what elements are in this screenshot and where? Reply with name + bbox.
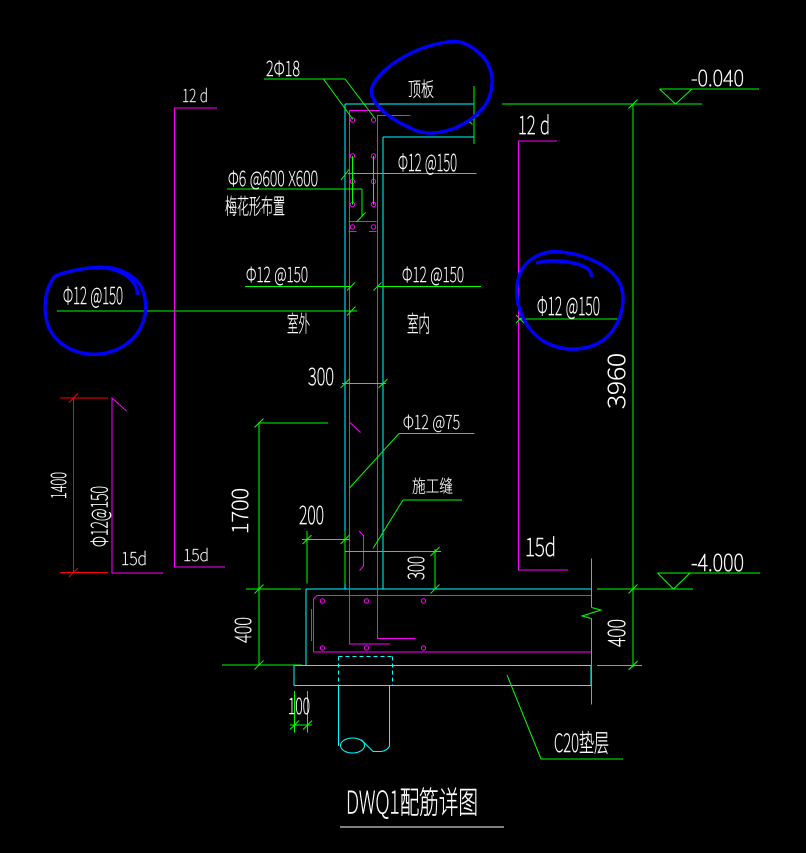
- phi12@150 mid-right underline: [377, 286, 481, 288]
- dim 300 right extension: [434, 549, 436, 589]
- footing rebar cage bottom (magenta): [314, 651, 592, 653]
- footing rebar cage top (magenta): [317, 595, 591, 597]
- dim 100 line: [290, 724, 312, 726]
- blue markup circle left: [45, 267, 146, 354]
- label 15d left-bar text: [123, 551, 146, 565]
- footing break zigzag: [582, 608, 601, 619]
- dim 1700 bottom ext: [246, 588, 301, 590]
- dimension 1700 text: [232, 489, 248, 532]
- label phi12@75 text: [404, 415, 459, 432]
- pile bottom break symbol (cyan): [341, 738, 390, 753]
- dim 1700 top ext: [258, 422, 328, 424]
- red dim 1400 top ext: [60, 397, 108, 399]
- label phi12@150 mid-right text: [403, 267, 464, 286]
- label 12d right text: [520, 114, 549, 134]
- level -0.040 line: [502, 103, 702, 105]
- right detail bar 12d/15d (magenta): [519, 141, 569, 570]
- phi12@150 mid-left tick: [347, 283, 355, 291]
- dim 100 ticks: [290, 721, 312, 730]
- phi12@150 far-left underline: [57, 310, 357, 312]
- pile left edge (cyan): [338, 686, 340, 747]
- footing bar section circles (magenta): [320, 599, 425, 650]
- wall/slab top edge (cyan): [345, 103, 474, 105]
- dimension 400 right text: [608, 620, 626, 647]
- label phi12@150 far-left text: [64, 287, 123, 308]
- phi12@75 leader: [350, 434, 400, 489]
- red dim 1400 bottom ext: [60, 572, 108, 574]
- level -0.040 overline: [660, 88, 760, 90]
- label shiwai (outdoor) text: [288, 313, 310, 334]
- 2phi18 leader diagonal 2: [345, 79, 375, 119]
- 2phi18 leader diagonal 1: [324, 79, 354, 120]
- dimension 200 text: [300, 506, 323, 525]
- phi12@150 far-left tick: [347, 307, 356, 316]
- dim 400 right bottom ext: [597, 665, 642, 667]
- label phi12@150 rotated left text: [91, 487, 112, 546]
- phi12@150 mid-right tick: [374, 283, 382, 291]
- label phi6@600x600 text: [229, 171, 317, 190]
- bedding left edge (cyan): [293, 666, 295, 686]
- tie bar section circles (magenta): [350, 118, 375, 229]
- dim 400 left line: [258, 589, 260, 665]
- wall 300 dimension ticks: [341, 379, 388, 388]
- wall tie links (green): [353, 156, 374, 205]
- label meihuaxing buzhi text: [226, 196, 285, 216]
- dim 200 ext lines: [307, 531, 345, 584]
- bedding bottom edge (cyan): [294, 685, 591, 687]
- level -4.000 line: [597, 588, 693, 590]
- dim 1700 line: [258, 423, 260, 589]
- dim 400 left bottom ext: [222, 664, 302, 666]
- label 2phi18 text: [267, 61, 300, 77]
- blue markup circle top: [371, 41, 492, 132]
- wall inner face (cyan): [382, 137, 384, 589]
- left detail bar 12d/15d (magenta): [175, 108, 226, 567]
- label dingban (top slab) text: [409, 80, 434, 98]
- dim 400 right line: [632, 589, 634, 667]
- pile right edge (cyan): [389, 686, 391, 748]
- phi12@150 mid-left underline: [245, 286, 351, 288]
- footing top edge (cyan): [306, 588, 591, 590]
- dimension 100 text: [289, 698, 309, 714]
- title underline (white): [340, 826, 504, 828]
- dim 200 line: [302, 539, 350, 541]
- label 15d right-bar text: [527, 536, 554, 556]
- 2phi18 leader underline: [264, 78, 345, 80]
- dim 200 ticks: [303, 535, 350, 544]
- level text -4.000: [692, 554, 743, 572]
- level text -0.040: [692, 70, 743, 86]
- bedding top edge (cyan): [294, 665, 591, 667]
- lap splice mark (magenta): [350, 423, 361, 433]
- dimension 300 right text: [408, 557, 424, 580]
- label 15d mid-bar text: [185, 548, 208, 561]
- dimension 3960 text: [608, 354, 626, 408]
- phi6 leader arrow: [357, 213, 366, 223]
- bedding right cut edge (cyan): [590, 666, 592, 686]
- label C20 dianceng (bedding) text: [555, 731, 608, 754]
- dim 400 left tick: [255, 661, 264, 670]
- phi6 leader line: [227, 189, 362, 217]
- dim 300 right ticks: [431, 547, 440, 594]
- dim 1700 ticks: [255, 419, 264, 594]
- dim 100 ext lines: [295, 691, 308, 733]
- slab cut arrow: [468, 115, 480, 125]
- dim 3960 line: [632, 104, 634, 589]
- C20 bedding leader: [507, 675, 623, 759]
- dimension 300 wall text: [309, 368, 334, 386]
- wall outer rebar (magenta): [350, 111, 391, 645]
- construction joint level line: [346, 551, 442, 553]
- footing rebar left hook (magenta): [311, 609, 313, 641]
- phi12@150 right-bar underline: [520, 318, 618, 320]
- phi12@75 underline: [399, 433, 475, 435]
- dimension 1400 text: [51, 473, 66, 498]
- dim 400 right tick: [629, 661, 638, 670]
- slab cut extension line: [473, 86, 475, 144]
- level -0.040 triangle: [660, 89, 693, 104]
- label 12d top-left text: [183, 88, 206, 102]
- construction joint symbol (magenta): [359, 531, 364, 571]
- footing break line upper: [591, 559, 593, 608]
- footing break line lower: [591, 619, 593, 705]
- red dim 1400 line: [73, 398, 75, 573]
- phi12@150 right-bar cross tick: [516, 315, 524, 323]
- tie zone bottom rails (magenta): [349, 222, 377, 232]
- label phi12@150 mid-left text: [247, 267, 308, 286]
- phi12@150 upper tick: [341, 170, 349, 181]
- dim 3960 ticks: [629, 100, 638, 594]
- top slab bottom edge (cyan): [383, 136, 474, 138]
- dimension 400 left text: [235, 618, 251, 643]
- wall outer face (cyan): [344, 104, 346, 589]
- label phi12@150 right-bar text: [538, 297, 599, 319]
- construction joint leader: [373, 500, 403, 549]
- phi12@150 upper underline: [348, 173, 477, 175]
- level -4.000 overline: [658, 572, 761, 574]
- label shigongfeng (construction joint) text: [413, 477, 453, 493]
- footing rebar cage left bend (magenta): [314, 596, 318, 653]
- blue markup circle right: [517, 252, 623, 349]
- wall inner rebar (magenta): [378, 116, 416, 639]
- label phi12@150 upper text: [399, 154, 457, 175]
- left detail bar phi12@150 (magenta): [112, 398, 163, 573]
- label shinei (indoor) text: [408, 313, 429, 334]
- wall 300 dimension line: [342, 383, 386, 385]
- red dim 1400 ticks: [69, 394, 78, 578]
- level -4.000 triangle: [658, 573, 691, 589]
- footing left edge (cyan): [305, 589, 307, 665]
- construction joint underline: [403, 499, 462, 501]
- pile head dashed outline (cyan): [339, 657, 393, 686]
- title DWQ1 peijin xiangtu text: [348, 788, 476, 819]
